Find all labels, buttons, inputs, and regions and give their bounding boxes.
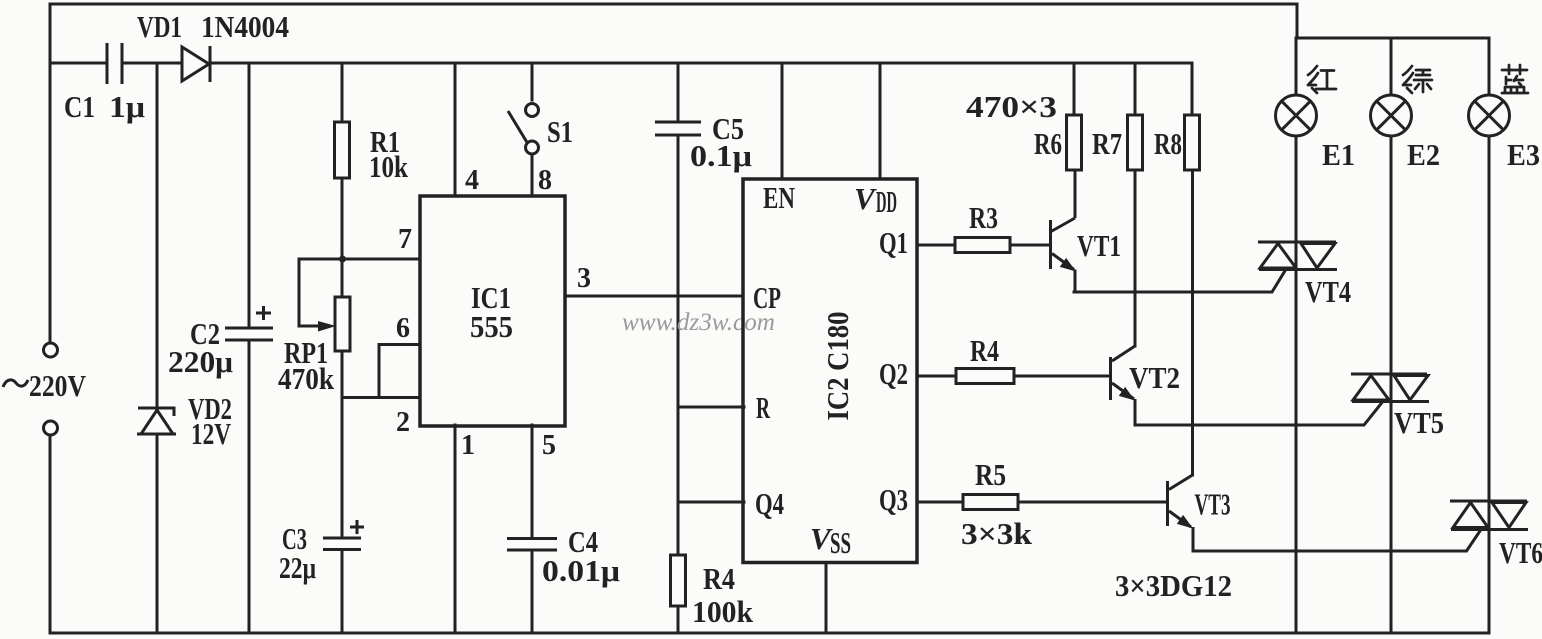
wire Q1 to R3: [917, 244, 955, 247]
wire VSS pin: [825, 563, 828, 634]
svg-text:R7: R7: [1092, 126, 1122, 161]
resistor R4: [956, 369, 1014, 384]
wire pin 6 step: [379, 345, 420, 398]
svg-text:CP: CP: [753, 280, 781, 315]
capacitor C1: [107, 43, 122, 84]
triac VT5: [1351, 374, 1429, 402]
svg-text:100k: 100k: [692, 594, 754, 629]
svg-text:3×3k: 3×3k: [961, 516, 1033, 551]
wire pin7 to node: [342, 258, 420, 261]
wire R4 to ground: [677, 606, 680, 633]
wire pin 5 lower: [531, 550, 534, 633]
frame right drop to lamp rail: [1296, 4, 1299, 38]
wire R8 to VT3 collector: [1191, 170, 1194, 475]
svg-text:1μ: 1μ: [109, 89, 145, 124]
transistor VT1: [1049, 220, 1052, 269]
frame top: [50, 3, 1297, 6]
svg-text:V: V: [854, 181, 877, 216]
capacitor C2: [225, 328, 273, 340]
wire VT1 emitter to VT4 gate: [1074, 270, 1286, 292]
svg-text:IC2 C180: IC2 C180: [820, 312, 855, 421]
svg-text:Q1: Q1: [879, 225, 908, 260]
IC1 555 box: [420, 196, 565, 426]
wire E3 top: [1488, 38, 1491, 95]
svg-text:R8: R8: [1154, 126, 1182, 161]
label green lamp: [1403, 66, 1432, 93]
wire through VT4: [1295, 242, 1298, 270]
switch S1: [531, 63, 534, 100]
svg-text:VD1: VD1: [137, 9, 182, 44]
wire Q2 to R4: [917, 375, 956, 378]
triac VT4: [1258, 242, 1337, 270]
svg-text:220μ: 220μ: [168, 344, 233, 379]
wire through VT6: [1488, 501, 1491, 530]
svg-text:22μ: 22μ: [279, 550, 316, 585]
svg-text:Q2: Q2: [879, 356, 908, 391]
wire RP1 down to C3: [341, 351, 344, 538]
wire E2 top: [1390, 38, 1393, 95]
wire R4 to VT2 base: [1014, 375, 1109, 378]
wire Q4 input: [678, 501, 744, 504]
lamp E3: [1469, 95, 1510, 136]
wire R5 to VT3 base: [1018, 501, 1166, 504]
svg-text:EN: EN: [763, 180, 795, 215]
wire EN pin: [781, 63, 784, 179]
svg-text:0.01μ: 0.01μ: [542, 553, 620, 588]
wire VT6 to ground: [1488, 530, 1491, 634]
resistor R5: [963, 495, 1018, 510]
wire R6 top lead: [1073, 63, 1076, 115]
svg-text:470×3: 470×3: [966, 89, 1057, 124]
wire pin 2: [342, 396, 420, 399]
svg-text:8: 8: [538, 165, 552, 196]
wire R7 top lead: [1134, 63, 1137, 115]
wire R1 to RP1: [341, 178, 344, 297]
wire VDD pin: [879, 63, 882, 179]
resistor R7: [1128, 115, 1143, 170]
svg-text:R: R: [756, 390, 770, 425]
wire E1 to VT4: [1295, 136, 1298, 242]
svg-text:1: 1: [461, 430, 475, 461]
capacitor C3: [323, 538, 361, 550]
lamp E2: [1371, 95, 1412, 136]
svg-text:3×3DG12: 3×3DG12: [1115, 568, 1232, 603]
svg-text:470k: 470k: [278, 361, 335, 396]
frame left lower wire: [49, 435, 52, 633]
frame left upper: [49, 4, 52, 343]
wire R8 top lead: [1191, 63, 1194, 115]
svg-text:10k: 10k: [369, 149, 409, 184]
lamp feed rail: [1297, 37, 1489, 40]
label red lamp: [1308, 66, 1336, 93]
node label ~220V: [3, 380, 28, 387]
wire pin 1 to ground: [454, 425, 457, 633]
svg-text:C1: C1: [64, 89, 95, 124]
transistor VT2: [1109, 357, 1112, 400]
svg-text:SS: SS: [830, 525, 851, 560]
triac VT6: [1450, 501, 1528, 530]
wire VT4 to ground: [1295, 270, 1298, 634]
svg-text:Q4: Q4: [755, 486, 784, 521]
svg-text:E3: E3: [1507, 137, 1540, 172]
svg-text:1N4004: 1N4004: [201, 9, 289, 44]
label blue lamp: [1502, 65, 1528, 93]
resistor R1: [335, 122, 350, 178]
vdd rail segment B: [122, 62, 182, 65]
terminal lower: [44, 421, 58, 435]
wire wiper detour: [299, 259, 342, 326]
IC2 C180 box: [743, 179, 917, 563]
svg-text:R3: R3: [969, 200, 998, 235]
wire VT2 emitter to VT5 gate: [1135, 403, 1382, 426]
wire C2 branch lower: [248, 340, 251, 633]
wire VD2 branch upper: [156, 63, 159, 408]
wire C5 branch top: [677, 63, 680, 122]
wire R3 to VT1 base: [1010, 244, 1048, 247]
bottom ground rail: [50, 632, 1489, 635]
svg-text:E1: E1: [1322, 137, 1355, 172]
wire Q3 to R5: [917, 501, 963, 504]
svg-text:R5: R5: [975, 457, 1006, 492]
svg-text:VT5: VT5: [1394, 405, 1444, 440]
svg-text:555: 555: [470, 309, 513, 344]
svg-text:12V: 12V: [191, 416, 231, 451]
wire E3 to VT6: [1488, 136, 1491, 501]
wire C3 to ground rail: [341, 550, 344, 634]
wire R input: [678, 406, 744, 409]
vdd rail segment C: [210, 62, 1192, 65]
wire pin 3 to CP: [565, 295, 743, 298]
wire pin 4: [454, 63, 457, 196]
svg-text:2: 2: [396, 407, 410, 438]
wire R7 to VT2 collector: [1134, 170, 1137, 346]
resistor R6: [1067, 115, 1082, 170]
svg-text:S1: S1: [547, 114, 573, 149]
zener diode VD2: [137, 408, 176, 434]
svg-text:R4: R4: [970, 333, 999, 368]
transistor VT3: [1166, 481, 1169, 526]
potentiometer RP1: [335, 297, 350, 351]
terminal upper: [44, 343, 58, 357]
wire R1 top lead: [341, 63, 344, 122]
svg-text:R6: R6: [1034, 126, 1062, 161]
svg-text:VT3: VT3: [1195, 487, 1231, 522]
node junction dot: [339, 256, 346, 263]
wire pin 5 upper: [531, 425, 534, 538]
svg-text:0.1μ: 0.1μ: [690, 138, 752, 173]
svg-text:220V: 220V: [29, 368, 87, 403]
diode VD1: [182, 46, 210, 82]
resistor R3: [955, 238, 1010, 253]
wire VT5 to ground: [1390, 402, 1393, 634]
lamp E1: [1276, 95, 1317, 136]
wire VT3 emitter to VT6 gate: [1193, 530, 1481, 552]
wire E1 top: [1295, 38, 1298, 95]
capacitor C4: [507, 539, 557, 551]
wire C2 branch upper: [248, 63, 251, 328]
svg-text:7: 7: [398, 224, 412, 255]
svg-text:Q3: Q3: [879, 482, 908, 517]
wire through VT5: [1390, 374, 1393, 402]
svg-text:R4: R4: [703, 561, 735, 596]
svg-text:VT6: VT6: [1499, 535, 1542, 570]
svg-text:E2: E2: [1407, 137, 1440, 172]
resistor R4 100k: [671, 555, 686, 606]
wire E2 to VT5: [1390, 136, 1393, 374]
resistor R8: [1185, 115, 1200, 170]
svg-text:DD: DD: [876, 184, 897, 219]
svg-text:VT4: VT4: [1305, 274, 1351, 309]
svg-text:4: 4: [465, 165, 479, 196]
wire C5 down through to R4: [677, 135, 680, 555]
svg-text:VT2: VT2: [1129, 360, 1180, 395]
svg-text:3: 3: [577, 263, 591, 294]
wire VD2 branch lower: [156, 434, 159, 633]
capacitor C5: [655, 122, 701, 135]
svg-text:5: 5: [542, 430, 556, 461]
svg-text:VT1: VT1: [1077, 228, 1121, 263]
svg-text:6: 6: [396, 313, 410, 344]
vdd rail segment A: [50, 62, 107, 65]
